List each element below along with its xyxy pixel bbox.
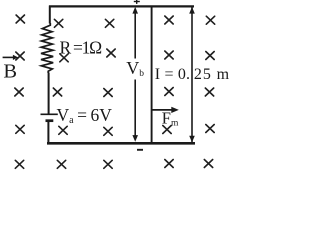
battery Va short thick plate — [46, 119, 54, 122]
minus terminal symbol — [137, 149, 143, 151]
magnetic field symbol x row4 col2 — [59, 126, 67, 134]
magnetic field symbol x row5 col5 — [204, 160, 212, 168]
battery Va long plate — [41, 113, 58, 115]
magnetic field symbol x row2 col3 — [107, 49, 115, 57]
svg-text:Fm: Fm — [162, 108, 179, 128]
svg-text:R =1Ω: R =1Ω — [60, 38, 103, 58]
wire left top segment — [49, 6, 51, 24]
magnetic field symbol x row5 col1 — [15, 160, 23, 168]
magnetic field symbol x row3 col2 — [53, 88, 61, 96]
B field vector arrow shaft — [3, 56, 14, 58]
length arrowhead top — [189, 7, 195, 14]
svg-text:Vb: Vb — [126, 58, 144, 79]
Vb arrowhead bottom — [132, 135, 138, 142]
magnetic field symbol x row1 col2 — [54, 19, 62, 27]
magnetic field symbol x row2 col4 — [165, 51, 173, 59]
wire left middle segment — [48, 73, 50, 114]
magnetic field symbol x row4 col4 — [163, 126, 171, 134]
length arrow shaft — [191, 7, 193, 142]
force arrow Fm shaft — [152, 109, 173, 111]
svg-text:25 m: 25 m — [194, 66, 230, 83]
svg-text:B: B — [3, 60, 17, 82]
magnetic field symbol x row3 col4 — [165, 88, 173, 96]
wire top rail — [49, 5, 194, 7]
resistor R zigzag — [41, 23, 53, 73]
wire bottom rail — [47, 142, 195, 145]
Vb arrowhead top — [132, 7, 138, 14]
magnetic field symbol x row4 col3 — [104, 127, 112, 135]
magnetic field symbol x row3 col3 — [104, 89, 112, 97]
magnetic field symbol x row1 col1 — [16, 15, 24, 23]
magnetic field symbol x row2 col5 — [206, 52, 214, 60]
magnetic field symbol x row5 col2 — [57, 160, 65, 168]
svg-text:I = 0.: I = 0. — [155, 66, 190, 83]
magnetic field symbol x row2 col1 — [16, 52, 24, 60]
magnetic field symbol x row3 col5 — [205, 88, 213, 96]
magnetic field symbol x row1 col4 — [165, 16, 173, 24]
magnetic field symbol x row4 col5 — [206, 125, 214, 133]
magnetic field symbol x row1 col3 — [105, 19, 113, 27]
magnetic field symbol x row5 col4 — [165, 160, 173, 168]
magnetic field symbol x row2 col2 — [60, 54, 68, 62]
svg-text:Va = 6V: Va = 6V — [57, 105, 113, 126]
magnetic field symbol x row1 col5 — [206, 16, 214, 24]
rod conductor bar — [151, 6, 153, 144]
Vb voltage arrow shaft lower — [134, 80, 136, 137]
B field arrowhead — [13, 55, 18, 60]
plus terminal symbol — [134, 0, 140, 4]
magnetic field symbol x row3 col1 — [15, 88, 23, 96]
length arrowhead bottom — [189, 136, 195, 143]
magnetic field symbol x row4 col1 — [16, 125, 24, 133]
Vb voltage arrow shaft upper — [134, 13, 136, 59]
wire left bottom segment — [47, 122, 49, 144]
force arrowhead Fm — [171, 107, 179, 113]
magnetic field symbol x row5 col3 — [104, 160, 112, 168]
